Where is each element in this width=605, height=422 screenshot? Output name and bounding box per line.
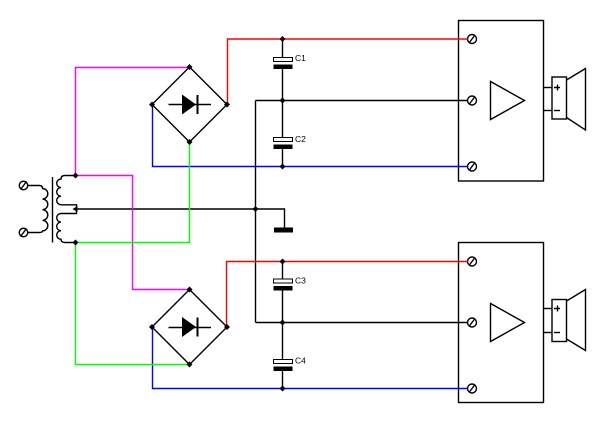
svg-text:C4: C4 bbox=[295, 356, 306, 366]
svg-text:C3: C3 bbox=[295, 276, 306, 286]
svg-text:C1: C1 bbox=[295, 53, 306, 63]
svg-text:C2: C2 bbox=[295, 134, 306, 144]
